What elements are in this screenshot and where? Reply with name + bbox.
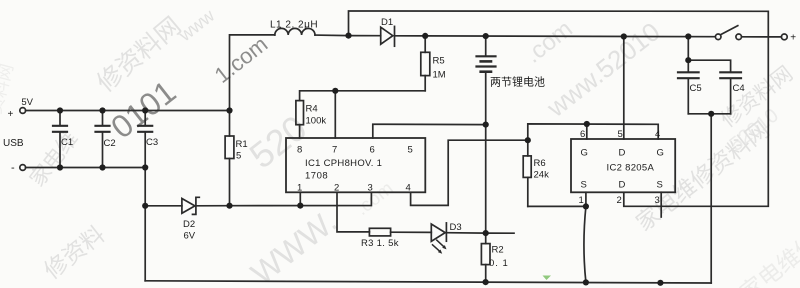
wire IC1 pin 4 to gate net — [411, 140, 528, 205]
junction D1 anode — [345, 33, 351, 39]
resistor R6 — [523, 140, 531, 206]
node B+ output terminal — [781, 34, 787, 40]
capacitor C2 — [96, 111, 110, 168]
svg-text:S: S — [657, 180, 663, 191]
junction rail node — [657, 280, 663, 286]
wire battery to R2 junction — [485, 125, 487, 234]
svg-text:C1: C1 — [61, 137, 73, 148]
wire switch node down to C5/C4 — [687, 37, 689, 61]
junction IC2 pin5 rail — [621, 33, 627, 39]
wire top rail D1 to battery to switch — [425, 35, 715, 38]
svg-text:2: 2 — [334, 183, 339, 194]
svg-text:C3: C3 — [146, 137, 158, 148]
svg-text:5: 5 — [408, 145, 413, 156]
svg-text:G: G — [581, 148, 588, 159]
svg-text:R5: R5 — [433, 56, 445, 67]
capacitor C3 — [138, 111, 152, 168]
junction C2 top — [99, 107, 105, 113]
svg-text:R1: R1 — [236, 139, 248, 150]
svg-text:4: 4 — [655, 129, 660, 140]
wire IC1 pin 2 to R3 — [337, 192, 369, 232]
svg-text:R3 1. 5k: R3 1. 5k — [361, 238, 399, 249]
svg-text:C2: C2 — [104, 138, 116, 149]
junction C1 bottom — [57, 164, 63, 170]
junction R1 bottom — [226, 203, 232, 209]
svg-text:100k: 100k — [306, 116, 327, 127]
wire gate net riser to IC2 pins 6,4 — [528, 124, 658, 140]
svg-text:USB: USB — [3, 138, 24, 149]
svg-text:两节锂电池: 两节锂电池 — [490, 75, 545, 89]
junction IC1 pin1 — [297, 203, 303, 209]
wire L1 to D1 node — [315, 34, 349, 37]
svg-text:D: D — [619, 180, 626, 191]
junction R2 bottom rail — [483, 279, 489, 285]
junction R5 top — [422, 33, 428, 39]
wire 5V rail — [26, 110, 230, 112]
svg-text:D2: D2 — [183, 219, 195, 230]
svg-text:C4: C4 — [733, 83, 745, 94]
svg-text:6: 6 — [580, 129, 585, 140]
svg-text:IC1 CPH8HOV. 1: IC1 CPH8HOV. 1 — [305, 158, 382, 169]
svg-text:5: 5 — [618, 129, 623, 140]
capacitor C5 — [678, 60, 699, 114]
wire riser to L1 line — [230, 35, 275, 111]
wire R6 bottom to IC2 pin1 — [528, 205, 586, 207]
capacitor C1 — [53, 111, 67, 168]
wire C bottom to ground rail — [710, 114, 712, 283]
transistor IC2 box — [571, 139, 675, 192]
svg-text:24k: 24k — [534, 170, 550, 181]
wire R3 to D3 — [391, 231, 432, 233]
junction IC2 pin1 rail — [583, 279, 589, 285]
svg-text:6V: 6V — [184, 231, 196, 242]
resistor R5 — [421, 36, 430, 91]
wire IC2 pin1 to bottom rail — [584, 206, 586, 282]
wire D3 to battery/R2 junction — [446, 232, 485, 234]
junction C3 bottom — [142, 164, 148, 170]
svg-text:1M: 1M — [433, 70, 446, 81]
junction C5 C4 bottom — [708, 111, 714, 117]
node USB- input terminal — [20, 165, 26, 171]
svg-text:8: 8 — [297, 145, 302, 156]
svg-text:+: + — [8, 109, 14, 120]
svg-text:3: 3 — [655, 195, 660, 206]
svg-text:1: 1 — [297, 183, 302, 194]
wire IC2 pin 6 stub — [586, 124, 588, 139]
svg-text:R6: R6 — [534, 158, 546, 169]
junction C2 bottom — [99, 164, 105, 170]
wire IC2 pin 5 to top rail — [623, 37, 625, 140]
resistor R1 — [225, 111, 234, 206]
junction C5 rail — [685, 33, 691, 39]
wire IC1 pin 7 stub — [334, 91, 336, 138]
svg-text:0. 1: 0. 1 — [489, 258, 509, 269]
capacitor C4 — [688, 60, 741, 114]
wire USB- rail — [26, 167, 146, 169]
switch S1 — [715, 26, 781, 40]
resistor R2 — [481, 233, 490, 282]
LED D3 — [431, 223, 446, 254]
svg-text:IC2 8205A: IC2 8205A — [607, 163, 655, 174]
svg-text:R2: R2 — [492, 245, 504, 256]
inductor L1 — [275, 28, 315, 35]
junction R6 top — [525, 137, 531, 143]
junction D2 anode net — [142, 203, 148, 209]
svg-text:7: 7 — [332, 145, 337, 156]
resistor R3 — [369, 228, 390, 236]
svg-text:4: 4 — [406, 183, 411, 194]
svg-text:2: 2 — [617, 195, 622, 206]
resistor R4 — [296, 101, 304, 138]
svg-text:6: 6 — [370, 145, 375, 156]
svg-text:5: 5 — [236, 151, 241, 162]
wire D2 net (USB- to IC1 pins 1,3) — [145, 205, 182, 207]
wire R5 bottom to R4/pin7 — [300, 91, 426, 101]
svg-text:L1 2. 2μH: L1 2. 2μH — [270, 20, 318, 31]
wire stub right of junction — [486, 232, 514, 234]
wire D2 to pin1 to pin3 — [230, 192, 372, 205]
svg-text:5V: 5V — [21, 97, 33, 108]
wire C5/C4 bottom join — [688, 113, 730, 115]
svg-text:D: D — [619, 148, 626, 159]
junction R1 top — [226, 107, 232, 113]
wire IC1 pin 1 stub — [299, 192, 301, 205]
svg-text:S: S — [581, 180, 587, 191]
svg-text:C5: C5 — [690, 83, 702, 94]
wire left vertical to bottom rail — [144, 168, 146, 281]
wire bottom rail — [145, 281, 711, 283]
svg-text:R4: R4 — [306, 104, 318, 115]
junction battery plus — [483, 33, 489, 39]
junction C5 C4 top — [685, 57, 691, 63]
wire IC2 pin 1 stub — [585, 192, 587, 206]
wire IC1 pin 6 to battery — [373, 124, 486, 138]
zener diode D2 — [182, 197, 230, 214]
junction C1 top — [57, 107, 63, 113]
svg-text:+: + — [790, 33, 796, 44]
diode D1 — [349, 26, 426, 46]
junction C3 top — [142, 107, 148, 113]
junction IC2 pin1 — [583, 203, 589, 209]
svg-text:-: - — [11, 162, 15, 174]
svg-text:G: G — [657, 148, 664, 159]
wire IC2 pin 3 stub — [660, 192, 662, 217]
op-amp IC1 box — [286, 138, 425, 192]
junction IC1 pin7 — [332, 88, 338, 94]
green mark — [543, 276, 552, 281]
node 5V+ input terminal — [20, 108, 26, 114]
junction IC2 pin6 — [584, 121, 590, 127]
wire top feedback line to IC2 pin2 — [349, 11, 769, 206]
svg-text:1: 1 — [579, 195, 584, 206]
svg-text:3: 3 — [368, 183, 373, 194]
junction D3 cathode — [483, 230, 489, 236]
svg-text:D1: D1 — [381, 17, 393, 28]
battery BT1 — [477, 36, 496, 125]
svg-text:1708: 1708 — [305, 171, 328, 182]
junction battery IC1 pin6 — [483, 122, 489, 128]
svg-text:D3: D3 — [450, 222, 462, 233]
